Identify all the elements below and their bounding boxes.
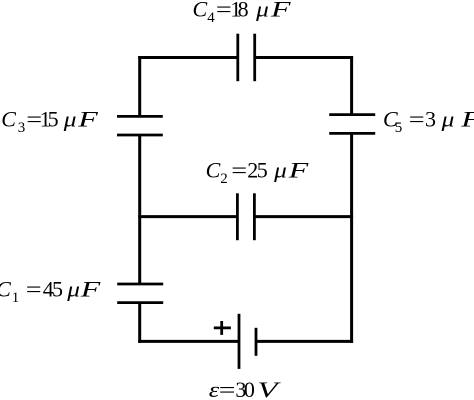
svg-text:C: C [206,157,221,182]
wire left vertical upper [138,56,141,116]
svg-text:=: = [409,107,425,131]
svg-text:μ: μ [255,0,269,22]
label C4 = 18 uF [193,0,291,26]
capacitor C3 bottom plate [117,134,163,137]
wire bottom-right horizontal [256,340,353,343]
label C2 = 25 uF [206,157,309,186]
svg-text:0: 0 [244,377,255,400]
svg-text:2: 2 [220,171,228,187]
battery plus sign [214,321,231,335]
svg-text:μ: μ [63,108,77,132]
wire middle-right horizontal [254,215,353,218]
label C1 = 45 uF [0,277,100,306]
label C3 = 15 uF [1,107,98,136]
capacitor C4 right plate [253,34,256,81]
svg-text:3: 3 [425,107,436,132]
svg-text:5: 5 [52,277,63,302]
wire left vertical middle [138,135,141,284]
label C5 = 3 uF [383,107,474,136]
svg-text:3: 3 [18,120,26,136]
label emf = 30 V [209,377,281,400]
wire middle-left horizontal [138,215,237,218]
capacitor C1 bottom plate [117,301,163,304]
svg-text:8: 8 [238,0,249,22]
svg-text:μ: μ [66,278,80,302]
svg-text:F: F [77,107,98,131]
svg-text:μ: μ [441,108,455,132]
capacitor C2 left plate [236,193,239,240]
svg-text:=: = [216,0,232,22]
wire right vertical lower [350,133,353,343]
battery long plate (positive) [238,314,241,369]
battery short plate (negative) [255,328,258,356]
capacitor C4 left plate [236,34,239,81]
svg-text:5: 5 [395,120,403,136]
svg-text:1: 1 [12,290,20,306]
svg-text:C: C [193,0,208,22]
svg-text:5: 5 [257,157,268,182]
capacitor C2 right plate [253,193,256,240]
capacitor C3 top plate [117,115,163,118]
wire right vertical upper [350,56,353,115]
wire bottom-left horizontal [138,340,239,343]
svg-text:F: F [460,107,474,131]
svg-text:C: C [1,107,16,132]
svg-text:F: F [270,0,291,21]
svg-text:μ: μ [273,159,287,183]
svg-text:=: = [219,378,236,400]
svg-text:F: F [288,158,309,182]
svg-text:C: C [0,277,11,302]
wire top-right horizontal [255,56,353,59]
capacitor C5 top plate [329,113,375,116]
capacitor C5 bottom plate [329,132,375,135]
wire top-left horizontal [138,56,238,59]
svg-text:=: = [231,158,247,182]
wire left vertical lower [138,303,141,343]
svg-text:F: F [80,277,101,301]
svg-text:V: V [257,378,281,400]
svg-text:4: 4 [207,10,215,26]
svg-text:5: 5 [48,107,59,132]
capacitor C1 top plate [117,283,163,286]
svg-text:=: = [26,277,42,301]
